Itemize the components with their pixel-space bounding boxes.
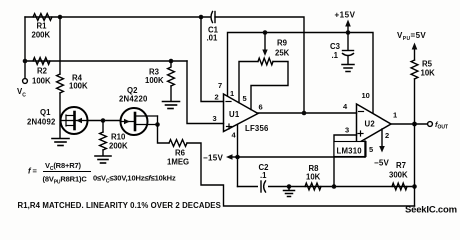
svg-text:1: 1 [393,111,397,120]
formula f = Vc(R8+R7)/(8Vpu R8R1)C [28,161,87,186]
fraction bar [44,171,91,173]
wire R2 rail [25,60,187,62]
svg-text:5: 5 [243,94,247,103]
wire U1 output to U2 pin4 [258,112,357,114]
-15V arrow [226,154,238,159]
svg-text:200K: 200K [32,31,51,40]
svg-text:R9: R9 [277,39,288,48]
node dot R3 top [169,59,174,64]
resistor R1 [33,14,52,21]
svg-text:100K: 100K [69,82,88,91]
svg-text:2N4092: 2N4092 [27,118,56,127]
svg-text:5: 5 [369,145,373,154]
node dot C1 left [199,15,204,20]
svg-text:R1: R1 [37,22,48,31]
wire R2 rail corner down to U1 pin3 [187,61,224,124]
node dot +15V / C3 [346,30,351,35]
svg-text:100K: 100K [145,76,164,85]
wire R9 left lead to U1 pin1 [239,62,258,103]
wire R10 stem [102,121,104,133]
wire C1 dot down to U1 pin2 [201,17,224,102]
wire C2 bottom rail [238,186,415,188]
resistor R10 [100,132,107,150]
ground under R10 [95,156,111,163]
label LM310 box [334,142,366,157]
wire U2 pin5 to -15V rail [364,141,366,157]
svg-text:10K: 10K [421,69,436,78]
node dot R8 / U2 pin3 [332,184,337,189]
wire Q2 to R6 [158,125,170,144]
wire R3 to ground [170,86,172,101]
svg-text:3: 3 [213,114,217,123]
svg-text:C3: C3 [330,42,341,51]
wire -15V rail to U2 pin5 [238,156,366,158]
svg-text:U1: U1 [229,110,240,119]
node dot -15V [235,155,240,160]
transistor Q1 [61,107,88,134]
svg-text:R6: R6 [175,149,186,158]
wire R10 to ground [102,150,104,156]
svg-text:200K: 200K [109,142,128,151]
resistor R3 [168,61,175,86]
wire U2 output to fout [391,123,428,125]
ground under R3 [163,102,180,109]
wire top rail from Vc corner to C1 [25,16,210,18]
wire U2 pin3 down to R8 node [334,135,357,187]
capacitor C1 [211,12,215,23]
Vpu arrow [412,43,418,61]
svg-text:2N4220: 2N4220 [119,95,148,104]
svg-text:6: 6 [259,103,263,112]
capacitor C3 [343,33,354,65]
svg-text:.1: .1 [332,51,339,60]
node dot Q2 output [155,122,160,127]
svg-text:100K: 100K [32,77,51,86]
wire vertical from R1 junction down through R4 to ground [59,17,61,74]
node dot R1 right junction [58,15,63,20]
svg-text:2: 2 [385,131,389,140]
svg-text:300K: 300K [389,171,408,180]
resistor R4 [57,74,64,93]
wire U1 pin4 down to -15V node [237,125,239,187]
svg-text:1: 1 [230,89,234,98]
wire C1 right to U1 output feedback [215,17,304,113]
svg-text:R7: R7 [396,161,406,170]
svg-text:+15V: +15V [335,11,356,20]
transistor Q2 [121,108,158,135]
svg-text:R2: R2 [37,67,48,76]
svg-text:−5V: −5V [374,159,390,168]
+15V arrow [345,20,351,33]
capacitor C2 [258,180,268,193]
svg-text:3: 3 [345,126,349,135]
wire R9 right lead to U1 pin5 [251,62,288,110]
svg-text:R10: R10 [111,133,126,142]
wire left vertical Vc to R1/R2 [24,17,26,78]
svg-text:.01: .01 [207,34,219,43]
svg-text:2: 2 [215,93,219,102]
svg-text:R1,R4 MATCHED. LINEARITY 0.1%: R1,R4 MATCHED. LINEARITY 0.1% OVER 2 DEC… [18,201,221,210]
node dot R7 right [412,184,417,189]
svg-text:7: 7 [218,81,222,90]
wire +15V rail to U1 pin7 [228,33,374,114]
svg-text:25K: 25K [275,49,290,58]
svg-text:.1: .1 [260,171,267,180]
svg-text:10K: 10K [306,173,321,182]
svg-text:LM310: LM310 [337,147,363,156]
terminal fout open circle [428,122,433,127]
svg-text:U2: U2 [365,120,376,129]
node dot R2 left junction [23,59,28,64]
op-amp U2 [357,104,392,144]
op-amp U1 [224,94,259,132]
svg-text:10: 10 [362,91,370,100]
ground under Q1 [52,139,69,146]
resistor R9 [258,58,273,65]
terminal Vc open circle [23,79,28,84]
resistor R2 [33,58,50,65]
potentiometer R9 wiper arrow [262,33,267,57]
node dot U1 output / C1 feedback [302,111,307,116]
svg-text:1MEG: 1MEG [167,158,189,167]
resistor R6 [169,140,187,147]
svg-text:SeekIC.com: SeekIC.com [405,205,457,216]
svg-text:R5: R5 [422,60,433,69]
pin2 arrow to -5V [379,129,385,153]
resistor R7 [392,183,407,190]
wire Q1 drain to Q2 gate [88,120,121,122]
svg-text:Q1: Q1 [40,108,51,117]
svg-text:LF356: LF356 [245,124,269,133]
node dot Q1 drain / R10 [101,118,106,123]
resistor R5 [411,60,418,79]
node dot output junction [412,122,417,127]
node dot C2 ground [287,184,292,189]
ground under C2 [284,187,295,197]
svg-text:−15V: −15V [203,154,223,163]
ground under C3 [342,65,354,72]
resistor R8 [305,183,321,190]
node dot R9 wiper top [263,30,268,35]
wire R6 right to bottom rail [187,143,415,206]
wire output vertical R5 down to R7 [414,79,416,206]
wire R4 bottom to ground [59,93,61,138]
